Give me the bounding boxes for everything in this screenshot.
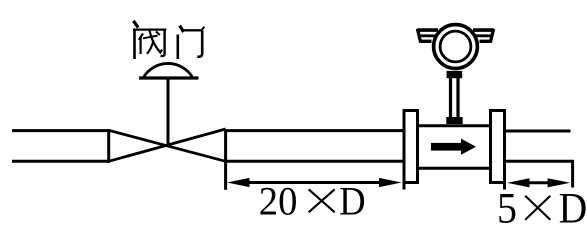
wire: left pipe bottom line [12, 160, 110, 163]
transmitter outer circle [434, 25, 478, 69]
flowmeter body bottom line [419, 167, 489, 170]
阀 top bar [133, 29, 166, 31]
valve actuator dome base [139, 76, 199, 79]
dimension 20xD: left arrowhead [227, 178, 250, 187]
extension line at valve outlet (x=225.5) [224, 129, 227, 190]
阀 inner 戈 slanted hook [150, 31, 163, 53]
transmitter neck base pedestal [446, 117, 462, 124]
flow direction arrow [431, 139, 476, 155]
dimension 20xD: right arrowhead [379, 178, 402, 187]
flowmeter body top line [419, 124, 489, 127]
valve left vertical edge [107, 129, 110, 163]
transmitter neck collar [447, 71, 463, 78]
label 阀门 (valve) hand-drawn glyphs [133, 21, 204, 59]
svg-text:D: D [339, 179, 365, 224]
门 dot [180, 26, 184, 32]
wire: outlet pipe bottom line [505, 160, 575, 163]
阀 inner 戈 dot [156, 32, 160, 36]
extension line at outlet end [571, 161, 574, 187]
阀 inner 戈 slash [147, 41, 154, 54]
transmitter right wing [473, 29, 494, 43]
阀 inner 亻 slash [139, 34, 143, 40]
label x (times) of 20xD [309, 189, 335, 212]
valve stem [167, 78, 170, 146]
transmitter left wing [417, 29, 438, 43]
left flange extension line below [403, 183, 406, 190]
svg-text:5: 5 [497, 186, 517, 233]
valve actuator dome arc [144, 63, 193, 77]
left flange of flowmeter [404, 111, 418, 183]
svg-text:D: D [559, 186, 587, 233]
label x (times) of 5xD [525, 196, 550, 220]
wire: outlet pipe top line [505, 130, 571, 133]
dimension 5xD: shaft [527, 181, 550, 184]
阀 inner 亻 vertical [140, 37, 142, 54]
wire: straight-run pipe top line [226, 129, 403, 132]
right flange of flowmeter [491, 111, 505, 183]
transmitter inner circle [440, 31, 471, 62]
svg-text:20: 20 [259, 179, 298, 224]
valve bowtie diagonal (left-top to right-bottom) [109, 130, 226, 161]
阀 dot [133, 21, 138, 28]
dimension 20xD: shaft [248, 181, 380, 184]
门 top bar [181, 29, 202, 31]
right flange extension line below [503, 183, 506, 190]
wire: left pipe top line [12, 129, 110, 132]
门 left vertical [177, 35, 180, 60]
transmitter neck column left line [449, 78, 452, 118]
transmitter neck column right line [456, 78, 459, 118]
dimension 5xD: left arrowhead [507, 178, 530, 187]
阀 inner 戈 horizontal [143, 36, 158, 39]
dimension 5xD: right arrowhead [548, 178, 571, 187]
阀 left vertical [133, 30, 136, 60]
门 right vertical + hook [197, 30, 202, 56]
阀 right vertical + hook [161, 30, 165, 56]
wire: straight-run pipe bottom line [226, 160, 403, 163]
valve bowtie diagonal (left-bottom to right-top) [109, 129, 226, 161]
